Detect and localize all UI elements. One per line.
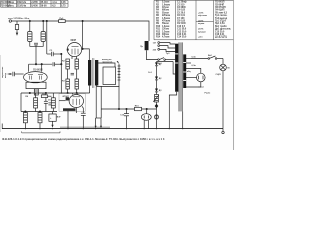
svg-text:С5 20,0: С5 20,0 (177, 12, 186, 14)
svg-text:С3 6800: С3 6800 (177, 7, 186, 9)
svg-text:120ом: 120ом (162, 29, 169, 31)
svg-text:С1 20пф: С1 20пф (177, 1, 187, 4)
power transformer tap wire (173, 62, 175, 75)
small electrolytic on divider line (154, 115, 158, 119)
capacitor C5 input (13, 72, 24, 76)
coil L2 branch wire (42, 21, 44, 32)
resistor R9 (38, 113, 42, 129)
top-right table text col1 (156, 2, 170, 39)
svg-text:СЦ21: СЦ21 (216, 74, 222, 76)
resistor R8 (23, 113, 27, 129)
audio input rotated label (2, 66, 7, 78)
top-right table grid (154, 0, 233, 39)
barretter tube V4 drop (146, 109, 148, 114)
svg-text:Гр1 1ГД-9: Гр1 1ГД-9 (215, 20, 226, 22)
svg-text:+15%: +15% (198, 12, 204, 14)
tube V1 anode risers (28, 64, 30, 72)
grid stopper resistor R11 (41, 95, 51, 98)
junction dot A3 (46, 20, 47, 21)
svg-text:6К4П: 6К4П (71, 39, 77, 42)
resistor R6 label (25, 96, 29, 98)
svg-text:Пр1 0,5А: Пр1 0,5А (215, 22, 225, 25)
diode labels (148, 64, 162, 92)
svg-text:громкогов.: громкогов. (102, 62, 113, 64)
power transformer Tr1 primary (175, 44, 178, 92)
svg-text:С6 0,01: С6 0,01 (177, 15, 186, 17)
tube V1 envelope (24, 72, 48, 83)
resistor R7 (51, 93, 55, 112)
capacitor C2 between coils (34, 43, 38, 46)
anode wire to output transformer (82, 49, 90, 60)
svg-text:8,4/56: 8,4/56 (31, 5, 38, 8)
junction dot C6 (61, 63, 62, 64)
svg-text:усил.: усил. (8, 6, 14, 8)
junction dot A (43, 20, 44, 21)
resistor R6 (34, 93, 38, 112)
junction dots mid bus (29, 92, 30, 93)
svg-text:-6,5: -6,5 (52, 6, 57, 8)
svg-text:С13 0,01: С13 0,01 (177, 34, 187, 36)
caption text (2, 137, 165, 141)
diamond junction on divider line (155, 104, 159, 108)
svg-text:вход: вход (5, 72, 7, 78)
svg-text:-1,1о: -1,1о (52, 2, 58, 4)
secondary stub 6.3V heater top (186, 58, 208, 60)
svg-text:+2вт: +2вт (198, 37, 203, 39)
power transformer Tr1 core (179, 42, 183, 111)
tube V1 electrodes (28, 75, 43, 80)
svg-text:R11: R11 (156, 29, 161, 31)
tube V1 socket box (26, 82, 46, 88)
output transformer Tr2 secondary (95, 60, 98, 86)
svg-text:Ф.В.226-1.6.1.2-0 принципиальн: Ф.В.226-1.6.1.2-0 принципиальная схема р… (2, 137, 165, 141)
svg-text:200/2,2в: 200/2,2в (17, 2, 27, 4)
input terminal left (9, 20, 11, 22)
coil L1 branch wire (29, 21, 31, 32)
svg-text:С16 0,01: С16 0,01 (215, 34, 225, 36)
svg-text:С8 0,05: С8 0,05 (177, 21, 186, 23)
wires resistors to mid bus (68, 89, 77, 93)
bottom bus wire (2, 128, 223, 130)
svg-text:Д1-Д3 ДГЦ: Д1-Д3 ДГЦ (215, 37, 227, 39)
secondary labels (187, 57, 211, 95)
pilot lamp wire down (222, 59, 224, 65)
rectifier feed wire (157, 61, 174, 63)
grid feed vertical (60, 53, 62, 94)
junction dot grid feed (61, 53, 62, 54)
wire C6 to grid feed (55, 63, 62, 65)
svg-text:Л1 6И1П: Л1 6И1П (215, 2, 225, 4)
mains fuse label (140, 46, 143, 48)
svg-text:330ом: 330ом (162, 34, 169, 36)
antenna arrow branch (15, 21, 18, 36)
speaker frame ground drop (100, 86, 102, 118)
svg-text:гетер: гетер (8, 2, 15, 4)
svg-text:680ом: 680ом (162, 10, 169, 12)
svg-text:2,2/65: 2,2/65 (31, 2, 38, 4)
junction dot A2 (29, 20, 30, 21)
Tr1 core bottom wire to bus (182, 111, 184, 128)
electrolytic C10 (49, 112, 62, 128)
top wire (12, 21, 150, 41)
svg-text:1,5мом: 1,5мом (162, 18, 170, 20)
svg-text:Ры2л: Ры2л (205, 93, 211, 95)
coupling capacitor C13 (48, 103, 51, 105)
bypass capacitor between columns (71, 73, 74, 75)
resistor R13 potentiometer (153, 95, 159, 129)
grid bus wire (29, 63, 53, 65)
svg-text:6,3в: 6,3в (192, 57, 197, 59)
svg-text:65-110: 65-110 (41, 2, 49, 4)
svg-text:4,7ком: 4,7ком (162, 36, 170, 39)
svg-text:470ком: 470ком (162, 20, 170, 23)
Tr1 primary bottom wire to bus (169, 92, 176, 129)
junction dot B (82, 20, 83, 21)
selector wires to primary (160, 43, 176, 52)
resistor R10 label (135, 106, 140, 108)
barretter tube V4 (141, 114, 151, 121)
right page border (232, 0, 234, 150)
junction dot bottom wire (126, 108, 127, 109)
svg-text:Л2 6К4П: Л2 6К4П (215, 3, 224, 6)
resistor grid labels (62, 61, 65, 83)
speaker return drop (118, 86, 120, 109)
secondary ground drop (95, 86, 97, 118)
tube V2 grid cap dot (67, 49, 69, 51)
fuse Pr1 on top wire (59, 20, 66, 23)
tube V3 grid blob (66, 97, 69, 100)
svg-text:Вк1 тумбл: Вк1 тумбл (215, 25, 227, 28)
output transformer Tr2 primary (88, 60, 91, 86)
svg-text:51ком: 51ком (162, 12, 169, 14)
voltage selector terminals (153, 42, 160, 52)
svg-text:0,35: 0,35 (61, 2, 66, 4)
speaker label (102, 59, 113, 64)
svg-text:С9 5100: С9 5100 (177, 23, 186, 25)
power transformer Tr1 secondary (183, 54, 186, 88)
svg-text:С7 100: С7 100 (177, 18, 185, 20)
tube V2 electrodes (72, 47, 79, 55)
Tr2 secondary top wire to speaker (97, 60, 115, 67)
tube V3 label (63, 95, 70, 98)
resistor R10 (135, 107, 142, 110)
bus junction dots (25, 128, 184, 129)
tube V3 bottom pins (68, 108, 76, 129)
Tr2 secondary return wire (97, 82, 119, 86)
capacitor C3 (50, 50, 54, 56)
switch Vk1 (158, 58, 176, 65)
tube V3 socket bar (63, 108, 76, 111)
svg-text:56ком: 56ком (162, 23, 169, 25)
top-right table text col2 (177, 1, 187, 39)
long vertical wire from top bus (46, 21, 48, 54)
bottom middle wire (101, 108, 156, 110)
resistor R5b (75, 79, 79, 89)
svg-text:Л5 лмп 6,3: Л5 лмп 6,3 (215, 12, 228, 14)
Tr1 primary winding section gaps (175, 54, 178, 63)
svg-text:обр.связ: обр.связ (198, 14, 207, 17)
rectifier column diode D2 (155, 77, 158, 89)
svg-text:R14: R14 (156, 36, 161, 39)
svg-text:47ком: 47ком (162, 6, 169, 9)
svg-text:керам.: керам. (198, 23, 205, 25)
svg-text:С2 510: С2 510 (177, 4, 185, 6)
anode supply vertical (82, 21, 84, 49)
secondary stub 4 (186, 77, 197, 79)
wire to coupling cap (47, 53, 51, 55)
svg-text:С10 0,5: С10 0,5 (177, 26, 186, 28)
secondary heater bottom wire (186, 82, 201, 87)
output transformer Tr2 core (92, 58, 94, 88)
coil L1 (28, 32, 32, 42)
svg-text:220ком: 220ком (162, 15, 170, 17)
coils bottom joining wire (30, 42, 43, 47)
svg-text:Др1 дроссель: Др1 дроссель (215, 29, 231, 31)
bus left end stub (1, 124, 3, 129)
tube V2 label (71, 39, 77, 42)
top-left table grid (1, 0, 69, 7)
left page border (0, 55, 2, 132)
svg-text:±20%: ±20% (198, 21, 203, 23)
fuse Pr1 label (59, 18, 64, 20)
svg-text:С11 30,0: С11 30,0 (177, 29, 187, 31)
inter-resistor wires (68, 69, 77, 79)
coil L2 (41, 32, 45, 42)
secondary stub 2 (186, 62, 191, 64)
resistor below V1 (34, 89, 38, 95)
resistor R4a (66, 59, 70, 69)
switch Vk2 (208, 55, 223, 59)
mid bus wire (21, 92, 90, 94)
voice coil arrow tap (117, 61, 119, 64)
secondary stub 3 (186, 69, 201, 74)
svg-text:0,75: 0,75 (61, 6, 66, 8)
svg-text:±10%: ±10% (198, 29, 203, 31)
Tr1 label (166, 53, 171, 55)
wire from coils down to grid bus (35, 46, 37, 64)
svg-text:215/8,4в: 215/8,4в (17, 5, 27, 8)
svg-text:R10: R10 (156, 26, 161, 28)
pilot lamp L5 (216, 64, 231, 76)
speaker Gr1 box (103, 67, 116, 85)
grid wire into V3 (59, 100, 66, 102)
input arrow (8, 73, 13, 75)
tube V3 shield box (59, 94, 85, 112)
capacitor C9 (44, 93, 52, 112)
kenotron V5 circle (197, 73, 206, 82)
svg-text:Л3 6П14П: Л3 6П14П (215, 6, 226, 9)
svg-text:1,0мом: 1,0мом (162, 4, 170, 6)
top-left table text (1, 2, 66, 8)
svg-text:бумажн: бумажн (198, 30, 207, 33)
svg-text:С15 20,0: С15 20,0 (215, 31, 225, 33)
junction dot speaker drop (118, 108, 119, 109)
resistor R5a (75, 59, 79, 69)
mid bus left drop (20, 93, 22, 112)
power transformer Tr1 core edges (179, 42, 183, 111)
tube V1 label (33, 70, 43, 72)
tube V3 top pins (73, 93, 78, 95)
rectifier column diode D3 (155, 89, 158, 95)
junction dots grid bus (35, 63, 36, 64)
svg-text:1,0ком: 1,0ком (162, 26, 170, 28)
svg-text:Л4 6Ц4П: Л4 6Ц4П (215, 9, 225, 12)
mains fuse block (145, 41, 149, 50)
svg-text:накал: накал (198, 87, 205, 89)
tube V3 envelope (69, 95, 83, 108)
resistor R4b (66, 79, 70, 89)
coupling capacitor C6 (53, 62, 55, 66)
top-right table notes col3 (198, 12, 207, 38)
tube V3 electrodes (73, 97, 81, 105)
grid stopper resistor R11 label (42, 94, 47, 96)
svg-text:С4 0,05: С4 0,05 (177, 9, 186, 12)
fuse to selector wire (147, 50, 158, 59)
bottom bus parallel segment (60, 126, 110, 128)
Tr2 primary bottom wire (89, 86, 91, 94)
svg-text:R12: R12 (156, 31, 161, 33)
tube V2 cathode pins (72, 56, 77, 59)
lower bus wire (21, 111, 57, 113)
barretter pins (144, 120, 148, 128)
rectifier column diode D1 (155, 62, 158, 77)
capacitor C15 (120, 109, 129, 129)
svg-text:звукосним.: звукосним. (2, 66, 4, 78)
pilot lamp to bottom bus (222, 71, 224, 129)
svg-text:2,2ком: 2,2ком (162, 31, 170, 33)
svg-text:6,3в: 6,3в (192, 65, 197, 67)
svg-text:С14 20,0: С14 20,0 (177, 36, 187, 39)
svg-text:Тр1 силов.: Тр1 силов. (215, 15, 228, 17)
junction dots lower bus (25, 111, 26, 112)
speaker voice coil (118, 64, 121, 82)
cathode capacitor C11 (81, 106, 86, 128)
svg-text:С12 30,0: С12 30,0 (177, 31, 187, 33)
top wire label (8, 18, 30, 20)
wire cap to junction (53, 53, 61, 55)
junction dot anode (82, 48, 83, 49)
svg-text:5,1ком: 5,1ком (162, 2, 170, 4)
ground arrows mid (95, 118, 102, 128)
ground terminal right (222, 129, 224, 134)
svg-text:56-90: 56-90 (41, 6, 48, 8)
svg-text:сеть 127/220в ~50гц: сеть 127/220в ~50гц (8, 18, 30, 20)
top-right table text col4 (215, 2, 231, 39)
tube V2 envelope (67, 43, 81, 57)
chassis bracket (22, 131, 60, 133)
svg-text:R13: R13 (156, 34, 161, 36)
Tr1 secondary winding section gaps (183, 63, 186, 81)
